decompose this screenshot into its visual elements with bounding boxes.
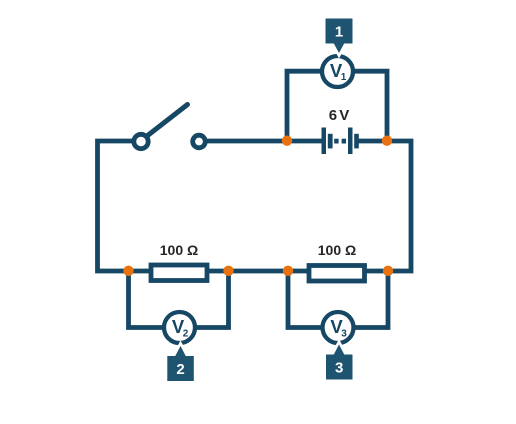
wire: voltmeter V1 measurement loop: [287, 71, 387, 141]
voltmeter V3: [323, 312, 354, 343]
svg-text:6 V: 6 V: [329, 107, 350, 124]
svg-text:1: 1: [335, 24, 343, 41]
svg-text:100 Ω: 100 Ω: [318, 242, 356, 258]
callout label 3 (points to voltmeter V3): [326, 342, 353, 380]
junction node: top rail right of battery: [382, 136, 392, 146]
wire: voltmeter V2 measurement loop: [129, 271, 229, 328]
voltmeter V1: [322, 56, 353, 87]
svg-text:3: 3: [341, 328, 347, 339]
wire: switch to battery segment: [205, 139, 322, 144]
resistor R2: [309, 266, 365, 282]
svg-text:3: 3: [335, 360, 343, 377]
svg-text:2: 2: [183, 328, 189, 339]
junction node: bottom rail left of R2: [283, 266, 293, 276]
junction node: bottom rail right of R2: [383, 266, 393, 276]
callout label 1 (points to voltmeter V1): [326, 19, 353, 56]
switch S1 (open): [134, 105, 206, 149]
voltmeter V2: [164, 312, 195, 343]
junction node: bottom rail right of R1: [223, 266, 233, 276]
junction node: top rail left of battery: [282, 136, 292, 146]
svg-text:1: 1: [341, 72, 347, 83]
resistor R1: [151, 265, 207, 281]
battery B1 (two cells with dashed omitted cells): [322, 128, 359, 155]
svg-text:100 Ω: 100 Ω: [160, 242, 198, 258]
callout label 2 (points to voltmeter V2): [167, 343, 194, 381]
wire: main loop (left rail, bottom rail, right rail, top corners): [98, 141, 412, 271]
svg-text:2: 2: [176, 361, 184, 378]
wire: voltmeter V3 measurement loop: [288, 271, 388, 328]
junction node: bottom rail left of R1: [123, 266, 133, 276]
